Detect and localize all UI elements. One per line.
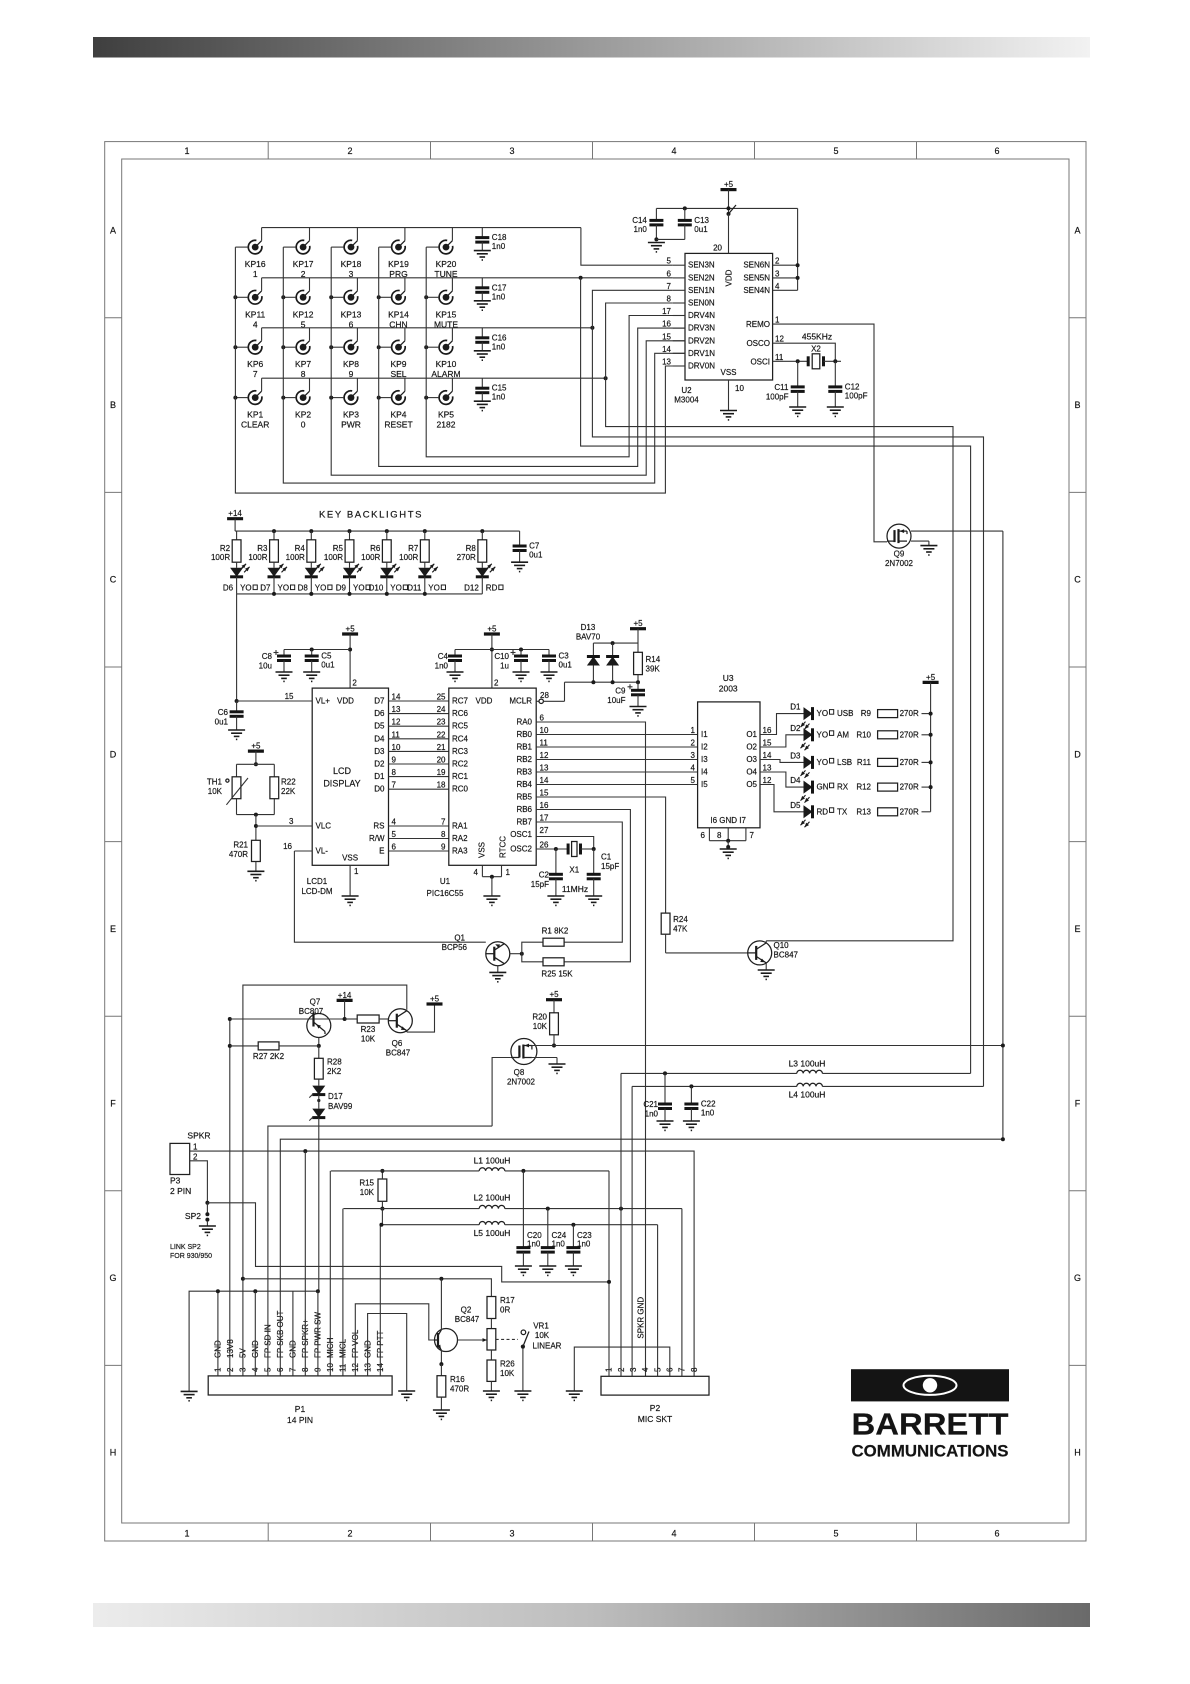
svg-text:D3: D3 <box>374 747 385 756</box>
wire keypad row 1 bus <box>262 227 581 229</box>
svg-text:D5: D5 <box>374 722 385 731</box>
wire keypad column 2 to DRV1N <box>283 247 685 483</box>
link SP2 <box>170 1203 216 1260</box>
svg-text:R5: R5 <box>333 544 344 553</box>
svg-text:10K: 10K <box>533 1022 548 1031</box>
svg-text:2: 2 <box>226 1367 235 1372</box>
capacitor C9 <box>607 682 646 716</box>
resistor R24 <box>661 913 748 953</box>
svg-text:2 PIN: 2 PIN <box>170 1186 191 1196</box>
wire O3 to D3 <box>760 760 804 763</box>
svg-text:5: 5 <box>691 776 696 785</box>
svg-text:270R: 270R <box>900 807 919 816</box>
wire D3 to RC3 <box>374 743 449 756</box>
svg-text:Q7: Q7 <box>310 998 321 1007</box>
svg-text:19: 19 <box>437 768 446 777</box>
svg-text:10: 10 <box>735 384 744 393</box>
svg-text:1: 1 <box>691 726 696 735</box>
keypad button KP3 <box>329 378 361 429</box>
wire RB7 to R1 <box>536 822 622 942</box>
page border frame <box>105 142 1086 1541</box>
resistor R20 10K <box>532 1013 558 1048</box>
svg-text:15: 15 <box>285 692 294 701</box>
power +14 backlights <box>227 509 243 531</box>
svg-text:MIC SKT: MIC SKT <box>638 1414 672 1424</box>
connector P2 MIC SKT <box>601 1367 709 1424</box>
svg-text:AM: AM <box>837 730 849 739</box>
svg-text:R23: R23 <box>361 1025 376 1034</box>
svg-text:SPKR: SPKR <box>187 1131 210 1141</box>
svg-text:D4: D4 <box>790 776 801 785</box>
wire RS to RA1 <box>373 818 448 831</box>
svg-text:22: 22 <box>437 730 446 739</box>
resistor R1 8K2 <box>522 927 569 954</box>
resistor R12 270R <box>878 783 931 792</box>
wire REMO to Q9 gate <box>773 324 887 542</box>
svg-text:VL+: VL+ <box>316 697 331 706</box>
svg-text:6: 6 <box>540 714 545 723</box>
wire E to RA3 <box>379 843 449 856</box>
svg-text:39K: 39K <box>646 664 661 673</box>
capacitor C3 <box>541 650 573 682</box>
svg-text:C11: C11 <box>774 383 789 392</box>
svg-text:KP2: KP2 <box>295 410 311 420</box>
wire D5 to RC5 <box>374 718 449 731</box>
svg-text:C16: C16 <box>492 333 507 342</box>
wire Q6 collector rail <box>243 985 407 1279</box>
svg-text:14: 14 <box>662 345 671 354</box>
keypad button KP18 <box>331 228 361 280</box>
svg-text:100pF: 100pF <box>845 391 868 400</box>
svg-text:15: 15 <box>662 332 671 341</box>
svg-text:15: 15 <box>540 789 549 798</box>
svg-text:SEN5N: SEN5N <box>743 273 770 282</box>
svg-text:1: 1 <box>184 1529 189 1539</box>
svg-text:KP13: KP13 <box>341 309 362 319</box>
svg-text:+5: +5 <box>724 180 734 189</box>
svg-text:X1: X1 <box>569 866 579 875</box>
keypad button KP9 <box>377 328 407 379</box>
wire RB2 to U3 I3 <box>536 759 697 761</box>
wire MCLR node <box>565 680 641 701</box>
svg-text:8: 8 <box>667 295 672 304</box>
svg-text:+5: +5 <box>430 995 440 1004</box>
led D5 <box>790 801 871 828</box>
power +5 R14 <box>630 619 646 652</box>
svg-text:0u1: 0u1 <box>215 717 229 726</box>
keypad button KP2 <box>281 378 311 429</box>
svg-text:11: 11 <box>775 353 784 362</box>
wire 13V8 rail <box>228 1017 232 1376</box>
svg-text:DRV2N: DRV2N <box>688 336 715 345</box>
wire D6 to RC6 <box>374 705 449 718</box>
svg-text:VDD: VDD <box>476 697 493 706</box>
capacitor C5 <box>303 648 335 682</box>
svg-text:10K: 10K <box>360 1188 375 1197</box>
wire backlight anode rail <box>235 529 519 533</box>
svg-text:+5: +5 <box>487 625 497 634</box>
inductor L3 100uH <box>621 1059 971 1076</box>
svg-text:A: A <box>110 226 116 236</box>
svg-text:Q10: Q10 <box>774 941 790 950</box>
svg-text:C14: C14 <box>632 216 647 225</box>
svg-text:1n0: 1n0 <box>634 225 648 234</box>
svg-text:Q9: Q9 <box>894 550 905 559</box>
svg-text:YO: YO <box>315 584 327 593</box>
wire O1 to D1 <box>760 714 804 735</box>
svg-text:+14: +14 <box>338 991 352 1000</box>
svg-text:LCD1: LCD1 <box>307 877 328 886</box>
svg-text:L3 100uH: L3 100uH <box>789 1059 826 1069</box>
wire RA0 to P2 pin4 <box>536 722 645 1376</box>
svg-text:2N7002: 2N7002 <box>507 1078 536 1087</box>
svg-text:VSS: VSS <box>720 368 736 377</box>
svg-text:9: 9 <box>392 756 397 765</box>
svg-text:I3: I3 <box>701 755 708 764</box>
svg-text:C5: C5 <box>321 652 332 661</box>
svg-text:R21: R21 <box>233 841 248 850</box>
keypad button KP19 <box>379 228 409 280</box>
svg-text:R17: R17 <box>500 1296 515 1305</box>
svg-text:D6: D6 <box>223 584 234 593</box>
svg-text:6: 6 <box>994 146 999 156</box>
keypad button KP14 <box>377 278 409 330</box>
svg-text:+5: +5 <box>251 742 261 751</box>
svg-text:21: 21 <box>437 743 446 752</box>
wire VL+ to C6 <box>237 700 296 702</box>
svg-text:0u1: 0u1 <box>321 661 335 670</box>
resistor R2 <box>211 531 241 562</box>
svg-text:RD: RD <box>817 807 829 816</box>
svg-text:R8: R8 <box>466 544 477 553</box>
svg-text:H: H <box>1074 1448 1081 1458</box>
transistor Q7 BC807 <box>230 998 345 1048</box>
svg-text:8: 8 <box>690 1367 699 1372</box>
svg-text:RESET: RESET <box>384 420 412 430</box>
svg-text:BCP56: BCP56 <box>442 943 468 952</box>
wire P1 pin2 13V8 <box>229 1375 231 1377</box>
inductor L4 100uH <box>632 1083 983 1099</box>
svg-text:FOR 930/950: FOR 930/950 <box>170 1253 212 1260</box>
capacitor C22 <box>683 1086 716 1130</box>
potentiometer VR1 10K LINEAR <box>487 1322 562 1351</box>
svg-text:C17: C17 <box>492 283 507 292</box>
svg-text:4: 4 <box>671 1529 676 1539</box>
svg-text:SEN3N: SEN3N <box>688 261 715 270</box>
switch VR1 <box>514 1330 531 1400</box>
svg-text:2: 2 <box>494 679 499 688</box>
svg-text:2: 2 <box>691 739 696 748</box>
svg-text:22K: 22K <box>281 787 296 796</box>
svg-text:VDD: VDD <box>725 269 734 286</box>
resistor R6 <box>361 531 391 562</box>
svg-text:1: 1 <box>775 316 780 325</box>
svg-text:SEN2N: SEN2N <box>688 273 715 282</box>
wire D0 to RC0 <box>374 781 449 794</box>
svg-text:RC1: RC1 <box>452 772 469 781</box>
crystal X1 <box>536 842 596 895</box>
led D11 <box>407 562 445 594</box>
svg-text:VSS: VSS <box>342 854 358 863</box>
connector P1 14 PIN <box>208 1310 392 1425</box>
svg-text:YO: YO <box>817 758 829 767</box>
svg-text:1n0: 1n0 <box>492 242 506 251</box>
svg-text:R16: R16 <box>450 1375 465 1384</box>
svg-text:X2: X2 <box>811 345 821 354</box>
svg-text:0: 0 <box>301 420 306 430</box>
svg-text:D12: D12 <box>464 584 479 593</box>
svg-text:4: 4 <box>474 868 479 877</box>
svg-text:270R: 270R <box>900 758 919 767</box>
svg-text:2182: 2182 <box>437 420 456 430</box>
svg-text:C15: C15 <box>492 384 507 393</box>
wire P1 pin13 GND <box>368 1314 416 1401</box>
svg-text:C6: C6 <box>218 708 229 717</box>
wire OSC1 to crystal <box>536 837 594 850</box>
svg-text:8: 8 <box>392 768 397 777</box>
wire P2 pin6 to ground <box>566 1347 670 1400</box>
svg-text:YO: YO <box>240 584 252 593</box>
svg-text:100R: 100R <box>324 553 343 562</box>
svg-text:E: E <box>110 924 116 934</box>
svg-text:17: 17 <box>540 814 549 823</box>
svg-text:1n0: 1n0 <box>645 1110 659 1119</box>
wire P1 pin6 FP SKB OUT <box>280 1137 1005 1376</box>
keypad button KP8 <box>329 328 359 379</box>
svg-text:455KHz: 455KHz <box>802 332 832 342</box>
wire O5 to D5 <box>760 785 804 812</box>
svg-text:+5: +5 <box>926 673 936 682</box>
wire keypad row 2 bus <box>262 277 673 279</box>
svg-text:P1: P1 <box>295 1404 306 1414</box>
svg-text:100R: 100R <box>286 553 305 562</box>
keypad button KP11 <box>233 278 265 330</box>
wire SPKR pin1 to P2 pin8 <box>190 1149 694 1376</box>
wire P2 pin2 <box>620 1073 622 1376</box>
svg-text:BC807: BC807 <box>299 1007 324 1016</box>
svg-text:1: 1 <box>354 867 359 876</box>
svg-text:I5: I5 <box>701 780 708 789</box>
resistor R27 2K2 <box>230 1042 319 1061</box>
resistor R5 <box>324 531 354 562</box>
svg-text:7: 7 <box>441 818 446 827</box>
svg-text:1n0: 1n0 <box>492 393 506 402</box>
svg-text:20: 20 <box>437 756 446 765</box>
svg-text:SEN1N: SEN1N <box>688 286 715 295</box>
svg-text:4: 4 <box>775 282 780 291</box>
capacitor C11 <box>766 361 806 416</box>
wire VDD U2 rail <box>656 205 799 290</box>
svg-text:2: 2 <box>352 679 357 688</box>
svg-text:I2: I2 <box>701 743 708 752</box>
svg-text:PWR: PWR <box>341 420 361 430</box>
svg-text:D6: D6 <box>374 709 385 718</box>
svg-text:P2: P2 <box>650 1403 661 1413</box>
svg-text:R27 2K2: R27 2K2 <box>253 1052 285 1061</box>
svg-text:4: 4 <box>253 319 258 329</box>
diode D13 BAV70 <box>576 623 638 682</box>
wire Q8 gate from FP SD IN <box>492 1058 511 1127</box>
wire SEN0N branch <box>604 303 953 941</box>
keypad button KP5 <box>424 378 456 429</box>
capacitor C6 <box>215 701 245 739</box>
svg-text:U3: U3 <box>723 673 734 683</box>
svg-text:Q6: Q6 <box>392 1039 403 1048</box>
svg-text:3: 3 <box>289 817 294 826</box>
svg-text:O1: O1 <box>746 730 757 739</box>
svg-text:L5 100uH: L5 100uH <box>474 1228 511 1238</box>
wire SPKR pin2 <box>190 1161 609 1282</box>
svg-text:RB1: RB1 <box>516 743 532 752</box>
svg-text:O5: O5 <box>746 780 757 789</box>
thermistor TH1 <box>207 764 274 814</box>
capacitor C21 <box>643 1073 673 1130</box>
svg-text:KEY BACKLIGHTS: KEY BACKLIGHTS <box>319 510 423 521</box>
svg-text:26: 26 <box>540 841 549 850</box>
svg-text:1u: 1u <box>500 662 509 671</box>
svg-text:0u1: 0u1 <box>559 661 573 670</box>
svg-text:C1: C1 <box>601 853 612 862</box>
capacitor C16 <box>474 328 507 360</box>
inductor L2 100uH <box>343 1193 682 1211</box>
capacitor C14 <box>632 208 665 252</box>
capacitor C18 <box>474 228 507 260</box>
svg-text:270R: 270R <box>900 783 919 792</box>
svg-text:2003: 2003 <box>719 684 738 694</box>
svg-text:H: H <box>110 1448 117 1458</box>
svg-text:R7: R7 <box>408 544 419 553</box>
svg-text:R1 8K2: R1 8K2 <box>542 927 569 936</box>
svg-text:2: 2 <box>347 146 352 156</box>
svg-text:R12: R12 <box>856 783 871 792</box>
capacitor C12 <box>827 361 868 416</box>
svg-text:C22: C22 <box>701 1100 716 1109</box>
svg-text:100pF: 100pF <box>766 392 789 401</box>
power +5 Q6 <box>427 1002 443 1005</box>
svg-text:RC2: RC2 <box>452 760 469 769</box>
svg-text:8: 8 <box>441 830 446 839</box>
svg-text:L1 100uH: L1 100uH <box>474 1156 511 1166</box>
svg-text:KP17: KP17 <box>293 259 314 269</box>
svg-text:KP14: KP14 <box>388 309 409 319</box>
wire keypad column 5 to DRV4N <box>426 247 685 457</box>
svg-text:1: 1 <box>253 269 258 279</box>
wire P1 pin8 FP SPKR+ <box>304 1151 306 1376</box>
svg-text:R22: R22 <box>281 778 296 787</box>
led D10 <box>369 562 408 594</box>
wire D17 to FP PWR SW <box>318 1118 320 1292</box>
svg-text:RB7: RB7 <box>516 818 532 827</box>
svg-text:C10: C10 <box>494 652 509 661</box>
svg-text:12: 12 <box>763 776 772 785</box>
svg-text:7: 7 <box>253 369 258 379</box>
svg-text:23: 23 <box>437 718 446 727</box>
svg-text:1n0: 1n0 <box>527 1240 541 1249</box>
svg-text:C: C <box>110 575 117 585</box>
capacitor C10 <box>494 648 529 682</box>
svg-text:SEN0N: SEN0N <box>688 299 715 308</box>
svg-text:F: F <box>1075 1099 1081 1109</box>
svg-text:KP6: KP6 <box>247 359 263 369</box>
resistor R22 <box>237 764 297 816</box>
svg-text:O4: O4 <box>746 768 757 777</box>
resistor R17 0R <box>487 1296 515 1329</box>
wire RB4 to U3 I5 <box>536 784 697 786</box>
svg-text:RA0: RA0 <box>516 718 532 727</box>
svg-text:C9: C9 <box>615 686 626 695</box>
svg-text:13: 13 <box>540 764 549 773</box>
svg-text:R13: R13 <box>856 807 871 816</box>
power +5 R20 <box>546 990 562 1013</box>
svg-text:RX: RX <box>837 783 849 792</box>
svg-text:10K: 10K <box>500 1369 515 1378</box>
svg-text:2N7002: 2N7002 <box>885 559 914 568</box>
svg-text:10: 10 <box>540 726 549 735</box>
svg-text:RA3: RA3 <box>452 847 468 856</box>
svg-text:C2: C2 <box>539 870 550 879</box>
svg-text:+5: +5 <box>549 990 559 999</box>
svg-text:C18: C18 <box>492 233 507 242</box>
wire VR1 wiper dashed <box>496 1338 518 1340</box>
keypad button KP4 <box>377 378 413 429</box>
wire keypad column 4 to DRV3N <box>379 247 685 466</box>
svg-text:3: 3 <box>509 146 514 156</box>
svg-text:10K: 10K <box>361 1035 376 1044</box>
capacitor C2 <box>531 849 565 905</box>
svg-text:R9: R9 <box>861 709 872 718</box>
svg-text:YO: YO <box>428 584 440 593</box>
wire P2 pin5 <box>657 1225 659 1377</box>
svg-text:470R: 470R <box>450 1385 469 1394</box>
svg-text:14: 14 <box>540 776 549 785</box>
power +5 PIC <box>484 625 500 689</box>
svg-text:PIC16C55: PIC16C55 <box>427 889 464 898</box>
svg-text:C7: C7 <box>529 542 540 551</box>
svg-text:TX: TX <box>837 807 848 816</box>
wire keypad row 3 bus <box>262 327 593 329</box>
svg-text:0u1: 0u1 <box>694 225 708 234</box>
logo Barrett Communications <box>851 1369 1009 1460</box>
svg-text:3: 3 <box>691 751 696 760</box>
svg-text:12: 12 <box>540 751 549 760</box>
svg-text:D7: D7 <box>374 697 385 706</box>
diode D17 BAV99 <box>309 1086 353 1121</box>
svg-text:+14: +14 <box>228 509 242 518</box>
svg-text:DRV1N: DRV1N <box>688 349 715 358</box>
svg-text:RB5: RB5 <box>516 793 532 802</box>
svg-text:13: 13 <box>662 358 671 367</box>
svg-text:5: 5 <box>833 146 838 156</box>
wire RB6 to R25 <box>536 810 630 962</box>
wire P2 pin3 <box>631 1086 633 1376</box>
svg-text:YO: YO <box>278 584 290 593</box>
resistor R28 2K2 <box>314 1046 342 1086</box>
resistor R21 <box>229 840 265 880</box>
svg-text:2: 2 <box>347 1529 352 1539</box>
keypad button KP1 <box>233 378 269 429</box>
keypad button KP10 <box>424 328 460 379</box>
svg-text:1n0: 1n0 <box>492 342 506 351</box>
svg-text:RC6: RC6 <box>452 709 469 718</box>
svg-text:3: 3 <box>775 269 780 278</box>
transistor Q2 BC847 <box>435 1279 488 1366</box>
svg-text:0u1: 0u1 <box>529 551 543 560</box>
svg-text:RA2: RA2 <box>452 834 468 843</box>
svg-text:470R: 470R <box>229 850 248 859</box>
svg-text:D1: D1 <box>374 772 385 781</box>
svg-text:1n0: 1n0 <box>435 662 449 671</box>
svg-text:R26: R26 <box>500 1360 515 1369</box>
